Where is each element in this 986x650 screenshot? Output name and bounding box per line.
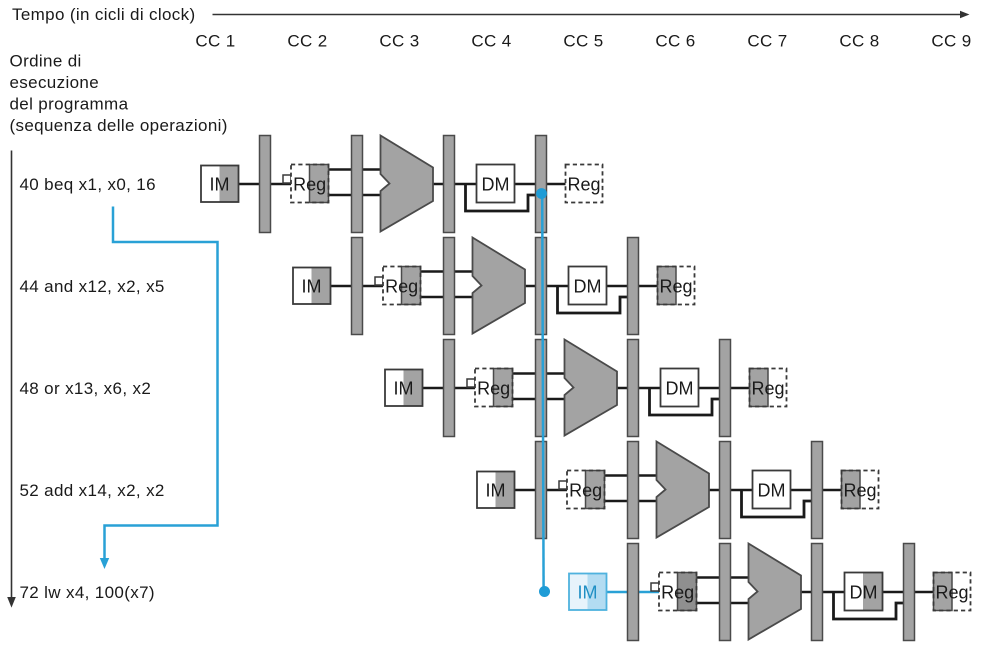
time axis arrow bbox=[213, 14, 962, 16]
pipeline register ID/EX (instruction 2) bbox=[444, 238, 455, 335]
svg-text:CC 6: CC 6 bbox=[655, 32, 695, 51]
svg-text:IM: IM bbox=[302, 276, 322, 296]
ALU (instruction 1) bbox=[381, 136, 434, 232]
wire: Reg to ALU lower input (instruction 1) bbox=[327, 194, 383, 197]
blue arrowhead pointing down at lw instruction bbox=[100, 558, 109, 569]
wire: Reg to ALU lower input (instruction 5) bbox=[695, 602, 751, 605]
wire: IM to Reg (instruction 4) bbox=[512, 489, 569, 492]
wire: Reg to ALU lower input (instruction 4) bbox=[603, 500, 659, 503]
svg-text:CC 1: CC 1 bbox=[195, 32, 235, 51]
blue node dot at lw fetch point bbox=[539, 586, 550, 597]
svg-text:DM: DM bbox=[482, 174, 510, 194]
svg-text:(sequenza delle operazioni): (sequenza delle operazioni) bbox=[10, 116, 228, 135]
wire: ALU output to DM (instruction 5) bbox=[799, 591, 845, 594]
svg-text:Reg: Reg bbox=[385, 276, 418, 296]
ALU (instruction 5) bbox=[749, 544, 802, 640]
pipeline register MEM/WB (instruction 4) bbox=[812, 442, 823, 539]
wire: ALU output to DM (instruction 4) bbox=[707, 489, 753, 492]
pipeline register IF/ID (instruction 3) bbox=[444, 340, 455, 437]
svg-text:DM: DM bbox=[574, 276, 602, 296]
pipeline register EX/MEM (instruction 4) bbox=[720, 442, 731, 539]
Reg write-back box, dashed (instruction 1) bbox=[566, 165, 603, 203]
wire: DM to write-back Reg (instruction 3) bbox=[695, 387, 751, 390]
pipeline register EX/MEM (instruction 1) bbox=[444, 136, 455, 233]
pipeline register ID/EX (instruction 5) bbox=[720, 544, 731, 641]
Reg write-back box, dashed (instruction 4) bbox=[842, 471, 879, 509]
Reg write-back box, dashed (instruction 2) bbox=[658, 267, 695, 305]
IM instruction memory box (instruction 1) bbox=[201, 166, 239, 203]
small write-enable square at Reg input (instruction 3) bbox=[467, 379, 475, 387]
program-order axis arrow (vertical, left) bbox=[11, 151, 13, 599]
wire: DM to write-back Reg (instruction 2) bbox=[603, 285, 659, 288]
pipeline register MEM/WB (instruction 2) bbox=[628, 238, 639, 335]
wire: IM to Reg (instruction 1) bbox=[236, 183, 293, 186]
wire: IM to Reg (instruction 2) bbox=[328, 285, 385, 288]
svg-text:Reg: Reg bbox=[751, 378, 784, 398]
svg-text:72 lw x4, 100(x7): 72 lw x4, 100(x7) bbox=[20, 583, 155, 602]
Reg register-read box, dashed, right half shaded (instruction 4) bbox=[567, 471, 605, 509]
Reg register-read box, dashed, right half shaded (instruction 3) bbox=[475, 369, 513, 407]
small write-enable square at Reg input (instruction 1) bbox=[283, 175, 291, 183]
wire: bypass loop under DM (instruction 5) bbox=[834, 593, 906, 619]
svg-text:48 or x13, x6, x2: 48 or x13, x6, x2 bbox=[20, 379, 152, 398]
svg-text:IM: IM bbox=[578, 582, 598, 602]
wire: IM to Reg (instruction 3) bbox=[420, 387, 477, 390]
blue vertical decision line at CC4/CC5 boundary bbox=[542, 194, 543, 590]
Reg register-read box, dashed, right half shaded (instruction 2) bbox=[383, 267, 421, 305]
wire: Reg to ALU upper input (instruction 4) bbox=[603, 474, 659, 477]
svg-text:Reg: Reg bbox=[569, 480, 602, 500]
svg-text:IM: IM bbox=[486, 480, 506, 500]
wire: bypass loop under DM (instruction 1) bbox=[466, 185, 538, 211]
pipeline register ID/EX (instruction 3) bbox=[536, 340, 547, 437]
wire: Reg to ALU upper input (instruction 3) bbox=[511, 372, 567, 375]
pipeline register EX/MEM (instruction 5) bbox=[812, 544, 823, 641]
IM instruction memory box (instruction 2) bbox=[293, 268, 331, 305]
DM data memory box (instruction 5) bbox=[845, 573, 883, 611]
svg-text:CC 2: CC 2 bbox=[287, 32, 327, 51]
wire: ALU output to DM (instruction 2) bbox=[523, 285, 569, 288]
svg-text:DM: DM bbox=[758, 480, 786, 500]
pipeline register IF/ID (instruction 1) bbox=[260, 136, 271, 233]
svg-text:IM: IM bbox=[394, 378, 414, 398]
pipeline register IF/ID (instruction 2) bbox=[352, 238, 363, 335]
pipeline register MEM/WB (instruction 3) bbox=[720, 340, 731, 437]
svg-text:CC 7: CC 7 bbox=[747, 32, 787, 51]
svg-text:del programma: del programma bbox=[10, 95, 129, 114]
svg-text:40 beq x1, x0, 16: 40 beq x1, x0, 16 bbox=[20, 175, 156, 194]
Reg register-read box, dashed, right half shaded (instruction 5) bbox=[659, 573, 697, 611]
pipeline register EX/MEM (instruction 3) bbox=[628, 340, 639, 437]
ALU (instruction 2) bbox=[473, 238, 526, 334]
pipeline register EX/MEM (instruction 2) bbox=[536, 238, 547, 335]
wire: Reg to ALU upper input (instruction 1) bbox=[327, 168, 383, 171]
ALU (instruction 3) bbox=[565, 340, 618, 436]
svg-text:CC 3: CC 3 bbox=[379, 32, 419, 51]
small write-enable square at Reg input (instruction 4) bbox=[559, 481, 567, 489]
wire: bypass loop under DM (instruction 4) bbox=[742, 491, 814, 517]
wire: Reg to ALU upper input (instruction 5) bbox=[695, 576, 751, 579]
svg-text:CC 5: CC 5 bbox=[563, 32, 603, 51]
IM instruction memory box (instruction 3) bbox=[385, 370, 423, 407]
wire: DM to write-back Reg (instruction 5) bbox=[879, 591, 935, 594]
svg-text:Reg: Reg bbox=[661, 582, 694, 602]
wire: DM to write-back Reg (instruction 4) bbox=[787, 489, 843, 492]
pipeline register IF/ID (instruction 4) bbox=[536, 442, 547, 539]
blue node dot on MEM/WB register of beq bbox=[536, 188, 547, 199]
wire: Reg to ALU upper input (instruction 2) bbox=[419, 270, 475, 273]
wire: Reg to ALU lower input (instruction 2) bbox=[419, 296, 475, 299]
svg-text:52 add x14, x2, x2: 52 add x14, x2, x2 bbox=[20, 481, 165, 500]
svg-text:CC 4: CC 4 bbox=[471, 32, 511, 51]
svg-text:Tempo (in cicli di clock): Tempo (in cicli di clock) bbox=[12, 5, 196, 24]
pipeline register MEM/WB (instruction 1) bbox=[536, 136, 547, 233]
svg-text:Reg: Reg bbox=[293, 174, 326, 194]
pipeline register ID/EX (instruction 4) bbox=[628, 442, 639, 539]
wire: bypass loop under DM (instruction 2) bbox=[558, 287, 630, 313]
DM data memory box (instruction 4) bbox=[753, 471, 791, 509]
wire: DM to write-back Reg (instruction 1) bbox=[511, 183, 567, 186]
svg-text:CC 9: CC 9 bbox=[931, 32, 971, 51]
wire: ALU output to DM (instruction 3) bbox=[615, 387, 661, 390]
svg-text:Ordine di: Ordine di bbox=[10, 52, 82, 71]
wire: ALU output to DM (instruction 1) bbox=[431, 183, 477, 186]
ALU (instruction 4) bbox=[657, 442, 710, 538]
svg-text:DM: DM bbox=[666, 378, 694, 398]
Reg register-read box, dashed, right half shaded (instruction 1) bbox=[291, 165, 329, 203]
small write-enable square at Reg input (instruction 2) bbox=[375, 277, 383, 285]
svg-text:IM: IM bbox=[210, 174, 230, 194]
svg-text:Reg: Reg bbox=[935, 582, 968, 602]
IM instruction memory box (instruction 4) bbox=[477, 472, 515, 509]
svg-text:Reg: Reg bbox=[567, 174, 600, 194]
DM data memory box (instruction 2) bbox=[569, 267, 607, 305]
svg-text:CC 8: CC 8 bbox=[839, 32, 879, 51]
svg-text:Reg: Reg bbox=[843, 480, 876, 500]
pipeline register ID/EX (instruction 1) bbox=[352, 136, 363, 233]
DM data memory box (instruction 3) bbox=[661, 369, 699, 407]
wire: Reg to ALU lower input (instruction 3) bbox=[511, 398, 567, 401]
pipeline register IF/ID (instruction 5) bbox=[628, 544, 639, 641]
svg-text:esecuzione: esecuzione bbox=[10, 73, 100, 92]
Reg write-back box, dashed (instruction 3) bbox=[750, 369, 787, 407]
IM instruction memory box (instruction 5) bbox=[569, 574, 607, 611]
wire: bypass loop under DM (instruction 3) bbox=[650, 389, 722, 415]
blue branch-taken path from beq row down to lw fetch (left side) bbox=[105, 207, 218, 560]
pipeline register MEM/WB (instruction 5) bbox=[904, 544, 915, 641]
small write-enable square at Reg input (instruction 5) bbox=[651, 583, 659, 591]
svg-text:Reg: Reg bbox=[659, 276, 692, 296]
wire: IM to Reg (instruction 5) bbox=[604, 591, 661, 594]
svg-text:DM: DM bbox=[850, 582, 878, 602]
svg-text:44 and x12, x2, x5: 44 and x12, x2, x5 bbox=[20, 277, 165, 296]
Reg write-back box, dashed (instruction 5) bbox=[934, 573, 971, 611]
DM data memory box (instruction 1) bbox=[477, 165, 515, 203]
svg-text:Reg: Reg bbox=[477, 378, 510, 398]
